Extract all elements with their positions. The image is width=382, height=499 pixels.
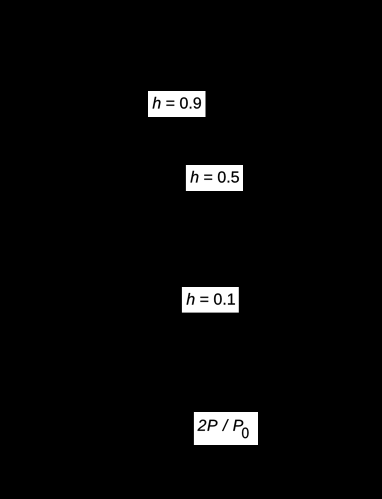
label text 2P / P — [198, 419, 244, 431]
label text subscript 0 — [242, 428, 249, 439]
label box h = 0.9 — [148, 91, 206, 117]
label text h = 0.1 — [187, 293, 235, 305]
label text h = 0.5 — [190, 171, 238, 183]
label text h = 0.9 — [153, 97, 201, 109]
label box 2P / P0 — [194, 412, 258, 445]
label box h = 0.1 — [182, 287, 239, 313]
label box h = 0.5 — [186, 165, 243, 191]
